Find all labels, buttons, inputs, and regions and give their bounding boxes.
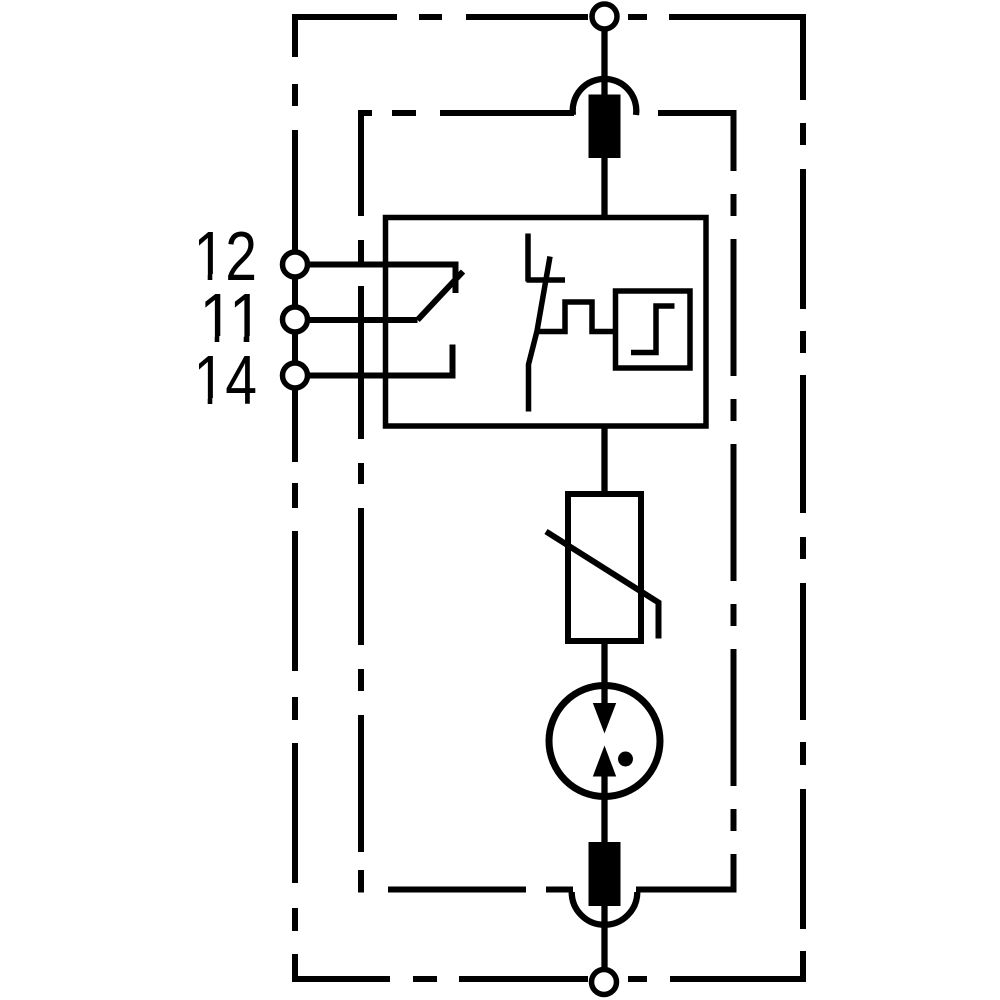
wire from upper contact to monitoring box (601, 158, 607, 218)
terminal 11 wire (296, 317, 418, 323)
lower plug-in contact arc (572, 892, 638, 925)
thermal disconnect contact tick (527, 277, 566, 283)
terminal 12 circle (283, 252, 308, 277)
thermal disconnect blade (529, 257, 551, 412)
spark gap circle (549, 686, 660, 797)
monitoring box (386, 218, 707, 427)
spark gap lower electrode wire (601, 774, 607, 842)
top terminal circle (592, 4, 617, 29)
varistor body (568, 494, 641, 641)
white patches removing serif feet of "1" glyphs (196, 274, 262, 407)
trigger box (616, 291, 691, 368)
inner module border (dashed), bottom edge (388, 887, 737, 893)
terminal 12 wire (296, 265, 456, 294)
spark gap upper electrode wire (601, 683, 607, 707)
spark gap lower arrow (593, 746, 616, 777)
upper plug-in contact blade (black rectangle) (589, 95, 621, 159)
outer enclosure border (dash-dot), top edge (292, 14, 806, 20)
inner module border (dashed), right edge (731, 110, 737, 893)
varistor diagonal (546, 532, 659, 639)
changeover switch blade (418, 272, 464, 321)
outer enclosure border (dash-dot), bottom edge (292, 976, 806, 982)
outer enclosure border (dash-dot), left edge (292, 14, 298, 982)
wire from monitoring box to varistor (601, 426, 607, 494)
wire from top terminal to upper plug contact (601, 23, 607, 97)
svg-text:14: 14 (194, 341, 258, 419)
lower plug-in contact blade (black rectangle) (589, 842, 621, 906)
bottom terminal circle (592, 970, 617, 995)
upper plug-in contact arc (573, 79, 637, 115)
inner module border (dashed), top edge (358, 110, 737, 116)
spark gap indicator dot (618, 752, 633, 767)
wire from varistor to spark gap (601, 641, 607, 686)
thermal disconnect upper conductor (525, 234, 531, 282)
terminal 14 circle (283, 363, 308, 388)
pulse waveform (535, 302, 616, 332)
terminal 11 circle (283, 307, 308, 332)
wire from lower contact to bottom terminal (601, 906, 607, 970)
outer enclosure border (dash-dot), right edge (800, 14, 806, 982)
spark gap upper arrow (593, 703, 616, 734)
terminal 14 wire (296, 345, 453, 376)
trigger step symbol (631, 306, 675, 353)
inner module border (dashed), left edge (358, 110, 364, 893)
